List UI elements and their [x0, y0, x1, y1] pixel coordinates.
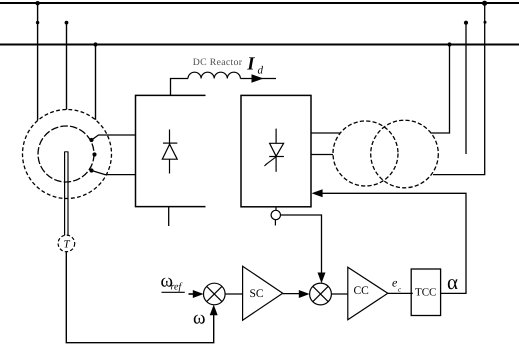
wire sensor to summing junction S2	[281, 215, 322, 273]
generator G inner circle	[38, 126, 94, 182]
stub inverter to sensor	[275, 207, 277, 211]
wire phase drop 3 to generator	[95, 45, 97, 120]
wire rectifier to DC reactor	[171, 79, 189, 96]
op-amp SC speed controller	[243, 266, 283, 320]
svg-text:SC: SC	[250, 288, 264, 300]
thyristor Q1	[264, 129, 284, 172]
svg-text:TCC: TCC	[415, 287, 436, 299]
svg-text:T: T	[64, 239, 71, 251]
sensor circle below inverter	[271, 210, 280, 219]
node dot mid-phase c	[464, 21, 468, 25]
summing junction S2	[310, 283, 332, 305]
transformer T primary circle	[333, 121, 398, 186]
summing junction S1	[204, 283, 226, 305]
tachometer TG circle	[58, 235, 75, 252]
block TCC	[411, 269, 440, 316]
arrowhead current Id	[252, 74, 264, 82]
wire alpha feedback to inverter	[323, 193, 467, 293]
rectifier box (open right side)	[136, 95, 206, 206]
wire CC to TCC	[388, 292, 413, 294]
wire phase drop 1 to generator	[37, 3, 39, 120]
wire generator to rectifier lower	[92, 171, 136, 175]
junction dot on L1 left	[35, 1, 39, 5]
generator G outer circle	[23, 110, 112, 199]
arrowhead alpha into inverter	[312, 189, 323, 197]
wire DC link with current arrow	[240, 78, 276, 80]
svg-text:CC: CC	[354, 285, 370, 297]
node dot mid-phase a	[36, 21, 39, 24]
svg-text:DC Reactor: DC Reactor	[193, 57, 243, 68]
node dot mid-phase b	[65, 21, 69, 25]
wire phase drop 2 to generator	[66, 23, 68, 110]
junction dot on L1 right	[482, 1, 487, 6]
stub below sensor	[274, 220, 276, 226]
shaft double line	[65, 152, 68, 236]
wire mid phase stub	[465, 23, 467, 154]
junction dot on L2 right	[447, 42, 451, 46]
inverter box	[241, 95, 311, 206]
underline omega ref	[162, 291, 185, 293]
wire transformer to bus L1	[433, 3, 485, 175]
arrow omega ref input	[189, 293, 196, 295]
bus line L2	[0, 44, 519, 46]
wire inverter to transformer upper	[311, 132, 341, 134]
arrowhead into S2 top	[318, 273, 326, 284]
wire S1 to SC	[225, 293, 243, 295]
svg-text:I: I	[246, 55, 255, 75]
op-amp CC current controller	[348, 267, 388, 320]
bus line L1 (top)	[0, 2, 519, 4]
junction dot on L2 left	[93, 42, 97, 46]
generator terminal dot 2	[92, 152, 96, 156]
svg-text:d: d	[258, 65, 264, 77]
wire speed feedback	[66, 252, 213, 343]
wire inverter to transformer lower	[311, 154, 333, 156]
wire S2 to CC	[331, 293, 347, 295]
generator terminal dot 3	[89, 168, 93, 172]
wire transformer to bus L2	[431, 45, 450, 134]
generator terminal dot 1	[89, 138, 93, 142]
rectifier bottom stub	[168, 207, 170, 226]
inductor DC reactor coil	[188, 72, 240, 78]
svg-text:ref: ref	[171, 282, 183, 293]
node dot mid-phase d	[484, 21, 487, 24]
svg-text:ω: ω	[193, 308, 206, 329]
wire generator to rectifier upper	[92, 135, 136, 140]
wire SC to S2 with arrow	[283, 293, 300, 295]
transformer T secondary circle	[371, 120, 439, 188]
arrowhead speed feedback up	[210, 305, 218, 316]
svg-text:α: α	[447, 270, 458, 294]
diode D1	[162, 130, 177, 174]
